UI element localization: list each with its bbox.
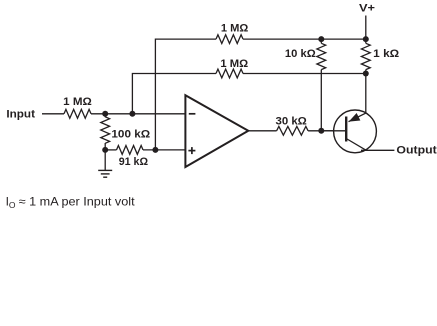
wire noninverting input line: [143, 149, 186, 151]
junction dot node D (feedback 1 / noninverting line): [152, 147, 158, 153]
ground stem: [104, 150, 106, 171]
resistor R feedback 1 MΩ (top): [216, 35, 243, 44]
resistor 100 kΩ: [101, 117, 110, 144]
resistor 10 kΩ: [317, 43, 326, 69]
op-amp plus sign: [188, 147, 195, 154]
junction dot node E (top rail / 10k): [318, 36, 324, 42]
wire 1k bottom stub: [365, 70, 367, 74]
junction dot node C (100k / 91k / ground): [102, 147, 108, 153]
svg-text:1 MΩ: 1 MΩ: [220, 58, 248, 70]
junction dot node A (input / 100k): [102, 111, 108, 117]
resistor 30 kΩ: [277, 126, 309, 135]
transistor Q1 emitter lead: [349, 74, 366, 122]
svg-text:10 kΩ: 10 kΩ: [285, 48, 316, 60]
wire 91k left stub: [105, 149, 116, 151]
svg-text:1 MΩ: 1 MΩ: [63, 96, 92, 108]
svg-text:Output: Output: [396, 145, 437, 157]
wire input lead: [42, 113, 64, 115]
transistor Q1 collector lead: [346, 139, 366, 151]
svg-text:1 kΩ: 1 kΩ: [373, 48, 399, 60]
transistor Q1 base bar: [345, 117, 347, 142]
wire second feedback rail: [132, 74, 216, 114]
wire base line: [308, 130, 345, 132]
wire top rail right segment: [243, 38, 366, 40]
wire 10k top stub: [320, 39, 322, 43]
resistor 91 kΩ: [117, 146, 144, 155]
junction dot node G (emitter sense / 1k bottom): [363, 71, 369, 77]
transistor Q1 base wire (redraw over circle): [321, 130, 345, 132]
transistor Q1 body circle: [334, 110, 377, 153]
resistor R feedback 1 MΩ (second): [216, 69, 243, 78]
svg-text:91 kΩ: 91 kΩ: [119, 156, 149, 168]
svg-text:O: O: [9, 200, 16, 210]
ground: [98, 170, 112, 177]
op-amp U1: [185, 95, 248, 167]
resistor R input 1 MΩ: [64, 109, 91, 118]
svg-text:1 MΩ: 1 MΩ: [221, 23, 249, 35]
wire top feedback rail: [155, 39, 216, 150]
svg-text:V+: V+: [359, 3, 375, 15]
wire second rail right segment: [243, 73, 366, 75]
wire 10k bottom to base node: [320, 70, 322, 131]
transistor Q1 emitter arrow: [350, 114, 360, 121]
wire inverting input line: [91, 113, 186, 115]
junction dot node B (feedback 2 / inverting line): [129, 111, 135, 117]
wire V+ lead: [365, 16, 367, 40]
wire 100k top stub: [104, 114, 106, 117]
junction dot node F (top rail / V+ / 1k): [363, 36, 369, 42]
svg-text:30 kΩ: 30 kΩ: [276, 116, 307, 128]
wire op-amp output: [248, 130, 276, 132]
resistor 1 kΩ: [361, 43, 370, 69]
wire 100k bottom stub: [104, 143, 106, 150]
wire 1k top stub: [365, 39, 367, 43]
svg-text:100 kΩ: 100 kΩ: [111, 128, 150, 140]
svg-text:Input: Input: [6, 108, 35, 120]
wire output lead: [361, 149, 394, 151]
junction dot node H (base / 10k / 30k): [318, 128, 324, 134]
svg-text:≈ 1 mA per Input volt: ≈ 1 mA per Input volt: [19, 195, 136, 209]
op-amp minus sign: [189, 113, 196, 115]
